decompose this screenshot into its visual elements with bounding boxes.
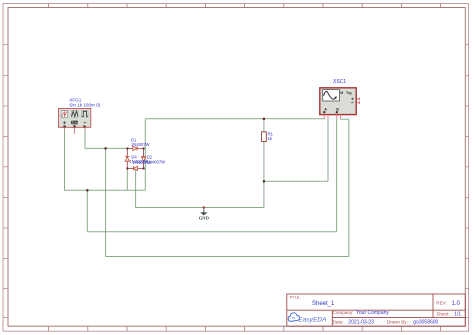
scope screen: [323, 90, 340, 102]
node junction at + wire split: [86, 189, 88, 191]
sine icon box: [61, 111, 68, 118]
wire long horizontal to scope B+: [87, 231, 336, 233]
title block: [287, 294, 466, 326]
svg-text:Drawn By:: Drawn By:: [387, 319, 408, 324]
bridge rails: [127, 148, 143, 168]
node junction at R1 top: [263, 118, 265, 120]
scope trigger terminals: [351, 98, 359, 105]
svg-text:Your Company: Your Company: [356, 310, 389, 316]
svg-text:1/1: 1/1: [454, 312, 461, 318]
oscilloscope XSC1 body: [320, 88, 356, 115]
node junction at R1 bottom branch: [263, 180, 265, 182]
pin stubs red: [65, 128, 86, 134]
wire bridge bottom tap drop: [135, 168, 137, 207]
wire gnd rail horizontal: [136, 207, 264, 209]
svg-text:Trg: Trg: [346, 91, 352, 95]
svg-text:Sin 1k 100m 0): Sin 1k 100m 0): [69, 103, 100, 108]
function generator XFG1 body: [59, 109, 91, 128]
diode D4 left pointing up: [125, 157, 129, 162]
wire bridge bottom-left drop: [126, 168, 128, 190]
svg-text:B: B: [336, 107, 339, 111]
svg-text:Sheet_1: Sheet_1: [312, 301, 335, 307]
frame ticks left: [3, 45, 8, 318]
triangle wave icon box: [71, 111, 78, 118]
junction dots: [86, 118, 265, 192]
title block texts: [289, 295, 450, 324]
gnd tap junction: [203, 207, 205, 209]
svg-text:Date:: Date:: [333, 319, 344, 324]
wire scope B- riser: [348, 119, 350, 256]
minus terminal label: [84, 122, 87, 124]
wire scope A- riser: [327, 119, 329, 181]
resistor R1 body: [262, 132, 267, 142]
svg-text:C o m: C o m: [72, 121, 81, 125]
bridge corner junctions: [126, 148, 144, 170]
svg-text:REV:: REV:: [436, 301, 447, 306]
scope pin pads: [323, 111, 338, 113]
wire R1 top stub: [263, 119, 265, 132]
scope sine trace: [324, 91, 337, 99]
svg-text:XSC1: XSC1: [333, 79, 346, 85]
wire top horizontal to scope A+: [145, 118, 324, 120]
svg-text:GND: GND: [199, 216, 210, 221]
plus terminal label: [63, 121, 66, 124]
com label blob: [71, 121, 78, 125]
svg-text:go3058600: go3058600: [413, 319, 438, 325]
wire R1 to scope A-: [264, 180, 328, 182]
pin pads: [63, 125, 85, 127]
diode D3 bottom pointing left: [133, 166, 137, 170]
wire XFG1 - down: [84, 131, 86, 149]
EasyEDA logo: [288, 313, 327, 324]
svg-text:A: A: [324, 107, 327, 111]
svg-text:EasyEDA: EasyEDA: [298, 317, 327, 324]
frame ticks right: [465, 45, 468, 318]
scope pin stubs: [324, 115, 340, 120]
wire bottom-left horizontal: [65, 189, 146, 191]
node junction at - wire split: [105, 147, 107, 149]
wire scope B+ riser: [336, 119, 338, 232]
diode D2 right pointing down: [142, 157, 146, 162]
wire XFG1 + down: [64, 131, 66, 191]
ground: [203, 209, 205, 213]
wire junction drop long: [105, 148, 107, 256]
svg-text:1N4007W: 1N4007W: [133, 160, 152, 165]
svg-text:1.0: 1.0: [452, 301, 461, 307]
wire long horizontal to scope B-: [106, 256, 349, 258]
diode D1 top pointing right: [133, 146, 137, 150]
svg-text:TITLE:: TITLE:: [289, 295, 300, 299]
wire bridge right riser: [144, 119, 146, 191]
svg-text:2021-03-23: 2021-03-23: [348, 319, 374, 325]
wire junction drop to B+ rail: [86, 190, 88, 231]
wire R1 bottom stub: [263, 142, 265, 208]
frame ticks top: [49, 4, 441, 8]
svg-text:M: M: [340, 91, 343, 95]
wire to bridge top-left: [85, 147, 127, 149]
svg-text:1N4007W: 1N4007W: [131, 142, 150, 147]
square wave icon box: [81, 111, 88, 118]
svg-text:Company:: Company:: [333, 310, 354, 315]
frame ticks bottom: [49, 326, 441, 331]
wire scope B- jog: [341, 118, 349, 120]
svg-text:Sheet:: Sheet:: [436, 312, 449, 317]
